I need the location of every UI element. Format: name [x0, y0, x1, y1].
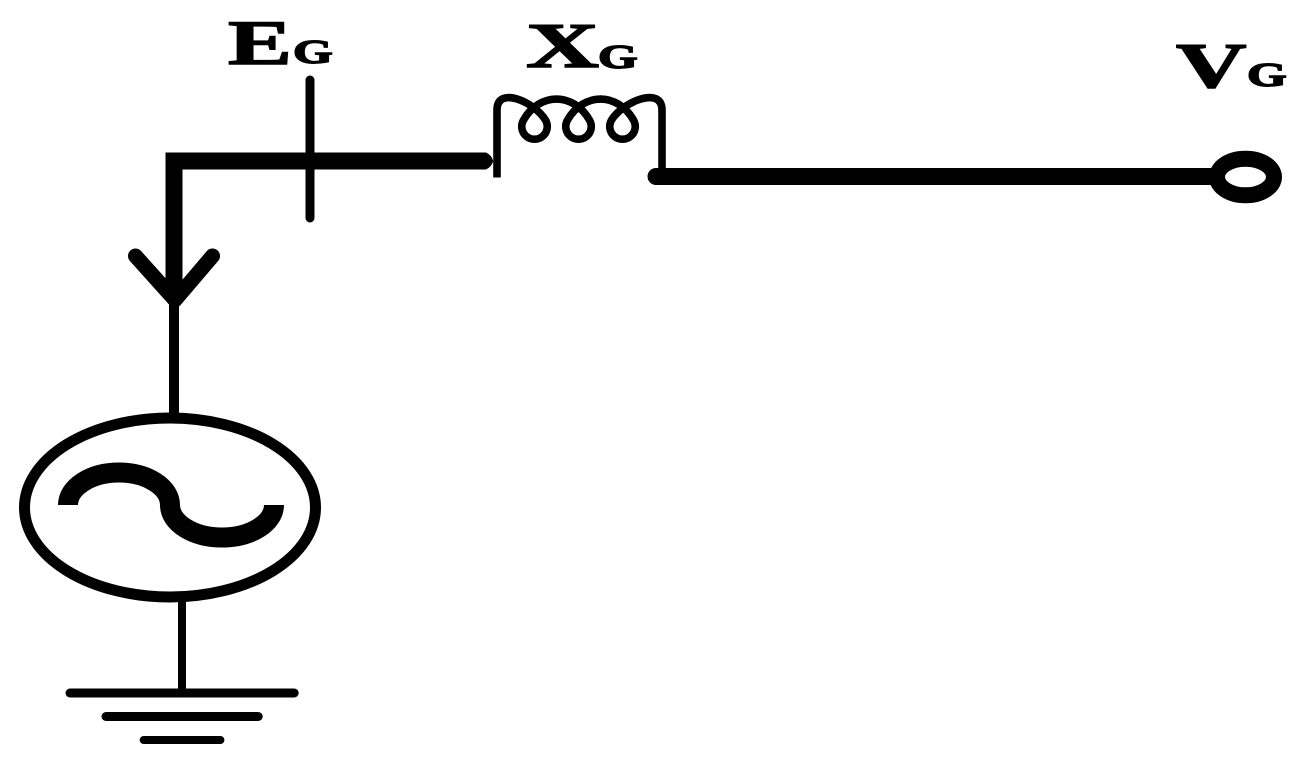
wire: pointed right end of wire A	[486, 153, 493, 170]
wire B: from inductor to terminal	[656, 168, 1214, 185]
svg-text:V: V	[1176, 30, 1246, 101]
ground bar 3	[144, 736, 221, 744]
ground bar 1	[70, 689, 294, 698]
AC source sine wave	[68, 473, 274, 538]
terminal ring V_G	[1217, 159, 1274, 196]
inductor X_G coil	[497, 98, 662, 178]
arrow head on vertical wire	[136, 256, 213, 300]
svg-text:G: G	[1247, 56, 1287, 94]
node: E_G tick mark	[306, 80, 315, 218]
wire: thin segment from arrow to source top	[169, 300, 179, 420]
label V_G	[1176, 30, 1246, 101]
label X_G	[526, 11, 599, 81]
svg-text:E: E	[228, 7, 292, 78]
wire: from source bottom to ground	[178, 598, 186, 693]
AC source ellipse	[25, 418, 316, 597]
svg-text:G: G	[293, 33, 333, 71]
label E_G	[228, 7, 292, 78]
ground bar 2	[106, 712, 258, 721]
svg-text:G: G	[598, 38, 638, 76]
svg-text:X: X	[526, 11, 599, 81]
wire: vertical from source up to corner and horizontal wire A to inductor	[174, 161, 486, 295]
